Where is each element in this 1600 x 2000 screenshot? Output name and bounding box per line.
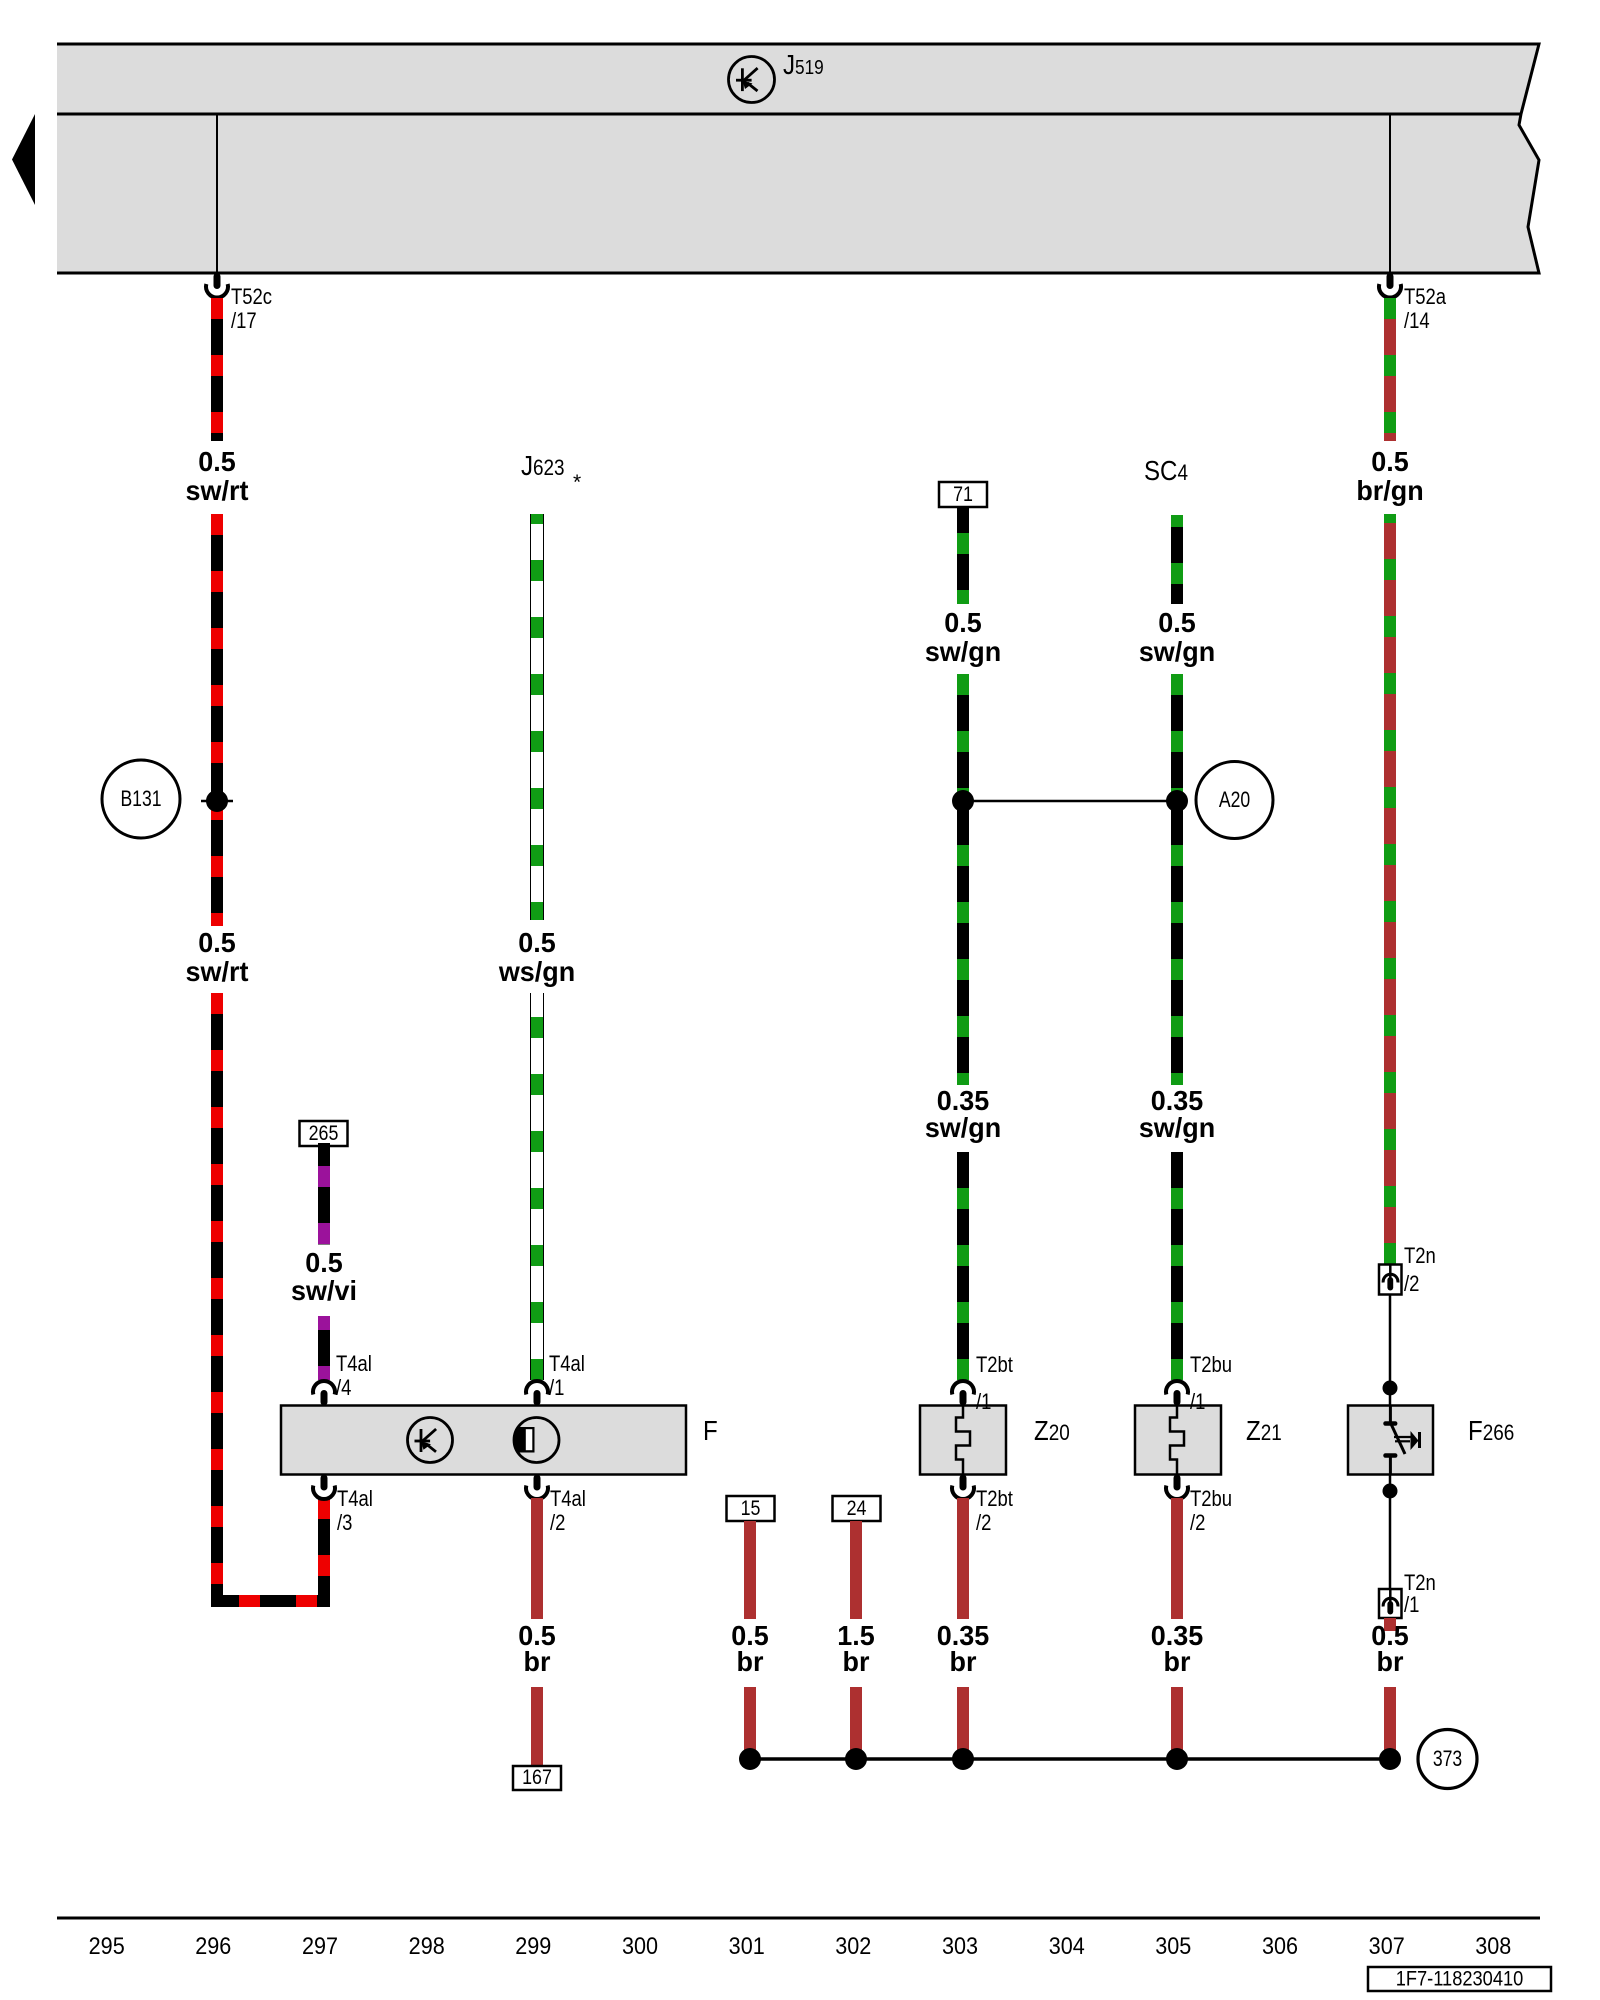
svg-text:1F7-118230410: 1F7-118230410 — [1396, 1967, 1524, 1990]
connector T4al/3 — [313, 1475, 373, 1536]
svg-text:/3: /3 — [337, 1512, 352, 1536]
svg-text:T4al: T4al — [550, 1488, 586, 1512]
rail junction dot col303 — [952, 1748, 974, 1770]
svg-text:373: 373 — [1433, 1747, 1462, 1771]
svg-text:A20: A20 — [1219, 788, 1250, 812]
F bus symbol — [408, 1418, 453, 1463]
svg-text:306: 306 — [1262, 1932, 1298, 1959]
svg-text:/1: /1 — [1404, 1594, 1419, 1618]
Z20 heater element — [956, 1406, 970, 1475]
svg-text:/1: /1 — [976, 1391, 991, 1415]
svg-text:71: 71 — [953, 483, 973, 507]
thin wire T2n/2 to F266 — [1389, 1295, 1392, 1405]
svg-text:/17: /17 — [231, 310, 257, 334]
F266 switch symbol — [1386, 1406, 1420, 1475]
svg-text:ws/gn: ws/gn — [498, 956, 575, 987]
svg-text:T2n: T2n — [1404, 1572, 1436, 1596]
component Z20 box — [920, 1406, 1006, 1475]
wire sw/vi segment 2 — [318, 1316, 330, 1380]
svg-text:/2: /2 — [1190, 1512, 1205, 1536]
svg-text:br: br — [843, 1646, 870, 1677]
svg-text:24: 24 — [847, 1497, 867, 1521]
svg-text:F: F — [703, 1414, 718, 1446]
svg-text:167: 167 — [522, 1766, 552, 1790]
junction dot at B131 — [206, 790, 228, 812]
connector T2bu/2 — [1166, 1475, 1232, 1536]
svg-text:br: br — [524, 1646, 551, 1677]
wire sw/gn col303 segment 1 — [957, 507, 969, 604]
wire br to 167 — [531, 1687, 543, 1766]
rail junction dot col302 — [845, 1748, 867, 1770]
svg-text:T2bu: T2bu — [1190, 1354, 1232, 1378]
component F box — [281, 1406, 686, 1475]
svg-text:/14: /14 — [1404, 310, 1430, 334]
svg-text:br: br — [950, 1646, 977, 1677]
J519 bus symbol — [729, 57, 775, 103]
connector T52a/14 — [1379, 273, 1447, 333]
svg-text:297: 297 — [302, 1932, 338, 1959]
wire sw/gn col305 segment 2 — [1171, 674, 1183, 1085]
svg-text:/1: /1 — [1190, 1391, 1205, 1415]
control unit J519 bar — [57, 44, 1539, 273]
wire br stub below T2n/1 — [1384, 1618, 1396, 1631]
svg-text:0.5: 0.5 — [198, 446, 235, 477]
wire br below Z20 — [957, 1498, 969, 1619]
svg-text:299: 299 — [515, 1932, 551, 1959]
svg-text:T2n: T2n — [1404, 1245, 1436, 1269]
svg-text:T52c: T52c — [231, 286, 272, 310]
svg-text:T52a: T52a — [1404, 286, 1447, 310]
svg-text:T2bu: T2bu — [1190, 1488, 1232, 1512]
wire br to rail (col305) — [1171, 1687, 1183, 1759]
svg-text:0.5: 0.5 — [944, 607, 981, 638]
svg-text:F266: F266 — [1468, 1414, 1514, 1446]
terminal box 24 — [833, 1496, 881, 1521]
connector T4al/4 — [313, 1353, 372, 1406]
svg-text:T2bt: T2bt — [976, 1354, 1013, 1378]
component Z21 box — [1135, 1406, 1221, 1475]
svg-text:br: br — [1164, 1646, 1191, 1677]
svg-text:/2: /2 — [976, 1512, 991, 1536]
junction dot col305 — [1166, 790, 1188, 812]
svg-text:298: 298 — [409, 1932, 445, 1959]
component F266 box — [1348, 1406, 1433, 1475]
svg-text:295: 295 — [89, 1932, 125, 1959]
F contact symbol — [509, 1418, 559, 1463]
connector T4al/2 — [526, 1475, 586, 1536]
svg-text:302: 302 — [835, 1932, 871, 1959]
svg-text:/4: /4 — [336, 1377, 351, 1401]
svg-text:305: 305 — [1155, 1932, 1191, 1959]
wire br to rail (col303) — [957, 1687, 969, 1759]
svg-text:301: 301 — [729, 1932, 765, 1959]
connector T52c/17 — [206, 273, 272, 333]
svg-text:br: br — [1377, 1646, 1404, 1677]
svg-text:sw/vi: sw/vi — [291, 1275, 357, 1306]
rail junction dot col307 — [1379, 1748, 1401, 1770]
wire sw/gn col305 segment 1 — [1171, 515, 1183, 604]
svg-text:br: br — [737, 1646, 764, 1677]
svg-text:sw/gn: sw/gn — [1139, 636, 1215, 667]
svg-text:/2: /2 — [1404, 1273, 1419, 1297]
node circle A20 — [1196, 762, 1273, 839]
svg-text:*: * — [573, 471, 581, 494]
connector T2bu/1 — [1166, 1354, 1232, 1415]
svg-text:sw/rt: sw/rt — [186, 956, 249, 987]
wire br/gn segment 1 — [1384, 298, 1396, 441]
svg-text:304: 304 — [1049, 1932, 1085, 1959]
svg-text:0.5: 0.5 — [305, 1247, 342, 1278]
svg-text:0.5: 0.5 — [1371, 446, 1408, 477]
junction dot col303 — [952, 790, 974, 812]
wire br below Z21 — [1171, 1498, 1183, 1619]
junction dot below F266 — [1383, 1484, 1398, 1499]
svg-text:300: 300 — [622, 1932, 658, 1959]
svg-text:Z21: Z21 — [1246, 1414, 1282, 1446]
wire inside bar to T52c — [216, 114, 218, 273]
terminal box 71 — [939, 482, 987, 507]
wire br to rail (col307) — [1384, 1687, 1396, 1759]
svg-text:308: 308 — [1475, 1932, 1511, 1959]
page-continuation arrow — [12, 114, 35, 205]
connector T4al/1 — [526, 1353, 585, 1406]
junction dot above F266 — [1383, 1381, 1398, 1396]
svg-text:B131: B131 — [120, 787, 161, 811]
svg-text:/1: /1 — [549, 1377, 564, 1401]
connector T2n/1 — [1379, 1572, 1436, 1618]
track numbers — [89, 1932, 1512, 1959]
svg-text:265: 265 — [309, 1122, 339, 1146]
wire br/gn segment 2 — [1384, 514, 1396, 1264]
Z21 heater element — [1170, 1406, 1184, 1475]
svg-text:T4al: T4al — [549, 1353, 585, 1377]
svg-text:0.5: 0.5 — [198, 927, 235, 958]
terminal box 167 — [513, 1766, 561, 1790]
current track scale line — [57, 1917, 1540, 1920]
wire br to rail (col302) — [850, 1687, 862, 1759]
svg-text:0.5: 0.5 — [1158, 607, 1195, 638]
svg-text:T4al: T4al — [336, 1353, 372, 1377]
wire br below 24 — [850, 1521, 862, 1619]
rail junction dot col305 — [1166, 1748, 1188, 1770]
wire ws/gn segment 2 — [530, 993, 544, 1380]
wire br to rail (col301) — [744, 1687, 756, 1759]
svg-text:sw/gn: sw/gn — [925, 1112, 1001, 1143]
svg-text:T4al: T4al — [337, 1488, 373, 1512]
svg-text:SC4: SC4 — [1144, 454, 1188, 486]
wire sw/rt segment 2 — [211, 514, 223, 926]
svg-text:T2bt: T2bt — [976, 1488, 1013, 1512]
svg-text:sw/gn: sw/gn — [925, 636, 1001, 667]
terminal box 15 — [727, 1496, 775, 1521]
wire sw/rt segment 3 (down to corner) — [211, 993, 223, 1607]
svg-text:0.5: 0.5 — [518, 927, 555, 958]
wire sw/rt horizontal corner run — [211, 1595, 330, 1607]
ground node circle 373 — [1418, 1730, 1477, 1789]
svg-text:303: 303 — [942, 1932, 978, 1959]
link wire between junctions — [963, 800, 1177, 803]
svg-text:296: 296 — [195, 1932, 231, 1959]
junction node B131 tick — [201, 800, 233, 803]
svg-text:br/gn: br/gn — [1356, 475, 1423, 506]
svg-text:J623: J623 — [521, 449, 565, 481]
wire sw/rt riser to T4al/3 — [318, 1498, 330, 1607]
svg-text:307: 307 — [1369, 1932, 1405, 1959]
node circle B131 — [102, 760, 180, 838]
svg-text:sw/rt: sw/rt — [186, 475, 249, 506]
connector T2bt/1 — [952, 1354, 1013, 1415]
wire sw/vi segment 1 — [318, 1143, 330, 1245]
svg-text:15: 15 — [741, 1497, 761, 1521]
terminal box 265 — [300, 1121, 348, 1146]
wire ws/gn segment 1 — [530, 514, 544, 920]
wire br below 15 — [744, 1521, 756, 1619]
connector T2n/2 — [1379, 1245, 1436, 1297]
wire sw/rt segment 1 — [211, 298, 223, 441]
wire sw/gn col303 segment 3 — [957, 1152, 969, 1380]
wire sw/gn col303 segment 2 — [957, 674, 969, 1085]
diagram number plate — [1368, 1967, 1551, 1991]
rail junction dot col301 — [739, 1748, 761, 1770]
svg-text:Z20: Z20 — [1034, 1414, 1070, 1446]
svg-text:/2: /2 — [550, 1512, 565, 1536]
wire sw/gn col305 segment 3 — [1171, 1152, 1183, 1380]
thin wire F266 to T2n/1 — [1389, 1474, 1392, 1589]
ground rail wire — [750, 1757, 1395, 1761]
wire br below F — [531, 1498, 543, 1619]
wire inside bar to T52a — [1389, 114, 1391, 273]
connector T2bt/2 — [952, 1475, 1013, 1536]
svg-text:sw/gn: sw/gn — [1139, 1112, 1215, 1143]
